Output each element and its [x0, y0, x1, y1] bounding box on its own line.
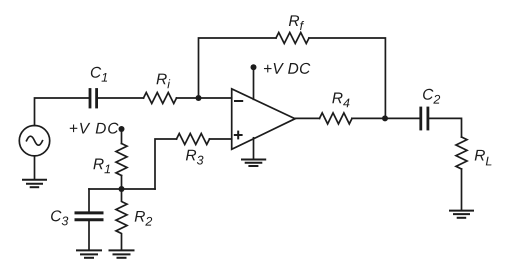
- wire: [121, 176, 123, 190]
- resistor Rf: [276, 33, 309, 44]
- wire: [210, 138, 232, 140]
- label C3: [51, 210, 68, 225]
- resistor R4: [320, 113, 353, 124]
- pin -: [235, 100, 242, 102]
- wire: [253, 138, 255, 159]
- node A: [196, 95, 202, 101]
- op-amp U1: [232, 89, 295, 149]
- label R2: [135, 211, 152, 226]
- wire: [461, 169, 463, 210]
- ground: [110, 250, 134, 257]
- capacitor C1: [90, 90, 97, 108]
- resistor R1: [116, 144, 127, 176]
- node B: [119, 186, 125, 192]
- resistor R3: [177, 134, 210, 145]
- label R1: [93, 159, 110, 174]
- label Rf: [289, 15, 304, 30]
- wire: [34, 156, 36, 179]
- wire: [35, 98, 89, 126]
- label R4: [332, 93, 349, 108]
- wire: [295, 117, 319, 119]
- node +V DC: [251, 64, 257, 70]
- label +V DC left: [70, 123, 119, 134]
- resistor R2: [116, 189, 127, 250]
- ground: [23, 180, 46, 188]
- wire: [253, 68, 255, 100]
- wire: [352, 117, 419, 119]
- node C: [382, 115, 388, 121]
- label Ri: [156, 74, 170, 89]
- label R3: [186, 150, 204, 165]
- wire: [429, 118, 461, 137]
- pin +: [235, 132, 242, 139]
- wire: [199, 38, 277, 98]
- ground: [450, 211, 473, 218]
- wire: [309, 38, 385, 118]
- capacitor C2: [421, 108, 428, 129]
- ground: [77, 250, 101, 257]
- label RL: [475, 150, 492, 166]
- AC source V1: [19, 126, 49, 156]
- node +V DC: [119, 126, 125, 132]
- wire: [177, 97, 232, 99]
- capacitor C3: [76, 213, 102, 220]
- wire: [88, 189, 90, 211]
- label C1: [91, 67, 107, 82]
- label +V DC op-amp: [264, 63, 310, 74]
- wire: [121, 129, 123, 144]
- resistor Ri: [144, 93, 177, 104]
- wire: [88, 221, 90, 250]
- label C2: [423, 89, 440, 104]
- ground: [242, 160, 265, 167]
- resistor RL: [456, 137, 467, 169]
- wire: [98, 97, 144, 99]
- wire: [89, 188, 155, 190]
- wire: [155, 139, 177, 189]
